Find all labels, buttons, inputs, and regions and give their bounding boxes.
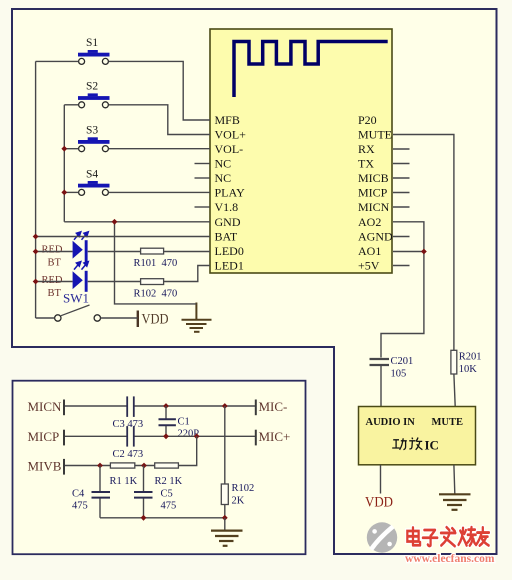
pin stub TX: [393, 163, 410, 165]
svg-text:10K: 10K: [459, 364, 478, 375]
svg-text:AO2: AO2: [358, 215, 381, 229]
svg-text:C4: C4: [72, 489, 85, 500]
junction dot C1 bottom: [163, 433, 169, 439]
amplifier IC U2 box: [359, 407, 476, 465]
resistor R1 body: [110, 463, 134, 468]
svg-text:LED1: LED1: [215, 259, 244, 273]
junction dot C5 top: [141, 463, 147, 469]
svg-text:475: 475: [72, 501, 88, 512]
ground symbol (mic box): [211, 518, 243, 546]
junction dot GND row: [112, 219, 118, 225]
svg-text:IC: IC: [425, 438, 439, 453]
wire: MIVB row: [65, 465, 110, 467]
capacitor C2: [127, 426, 134, 447]
wire: C2 to MIC+: [135, 435, 256, 437]
wire: R201 to amp MUTE input: [454, 374, 455, 406]
svg-text:BAT: BAT: [215, 230, 238, 244]
resistor R102 label 470: [134, 289, 178, 300]
svg-text:VDD: VDD: [142, 312, 169, 328]
svg-text:MICN: MICN: [358, 200, 390, 214]
junction dot AO1: [421, 249, 427, 255]
junction dot S4 bus: [61, 190, 67, 196]
junction dot C1 top: [163, 403, 169, 409]
resistor R102 body (mic box): [221, 484, 228, 505]
svg-text:RED: RED: [42, 275, 63, 286]
svg-text:C5: C5: [161, 489, 173, 500]
svg-text:MICN: MICN: [28, 399, 63, 414]
junction dot LED D1 bus: [33, 249, 39, 255]
junction dot S3 bus: [61, 146, 67, 152]
svg-text:BT: BT: [48, 288, 62, 299]
ground symbol (top section): [182, 303, 212, 332]
watermark logo circle: [367, 522, 397, 552]
wire: SW1 to VDD: [101, 317, 138, 319]
capacitor C3: [127, 396, 134, 417]
wire: GND junction down to ground: [115, 222, 197, 304]
svg-text:R102: R102: [134, 289, 157, 300]
wire: S2 to VOL+: [109, 105, 210, 135]
capacitor C4 label 475: [72, 489, 88, 512]
switch SW1 contacts: [55, 305, 101, 321]
pin stub RX: [393, 148, 410, 150]
svg-text:GND: GND: [215, 215, 241, 229]
pin stub +5V: [393, 265, 410, 267]
wire: bus to LED D2 anode: [36, 281, 73, 283]
svg-text:MICP: MICP: [28, 429, 60, 444]
svg-text:MIC+: MIC+: [259, 429, 291, 444]
svg-text:VOL+: VOL+: [215, 128, 247, 142]
power VDD symbol (top section): [138, 311, 169, 328]
svg-text:S3: S3: [86, 125, 98, 137]
pin stub MICP: [393, 192, 410, 194]
capacitor C201: [370, 359, 390, 365]
svg-text:C2 473: C2 473: [113, 449, 144, 460]
pin stub MICN: [393, 206, 410, 208]
resistor R101 label 470: [134, 258, 178, 269]
wire: LED D2 cathode to R102: [88, 281, 141, 283]
pin stub MICB: [393, 177, 410, 179]
wire: second bus vertical: [63, 105, 65, 222]
antenna meander trace: [234, 42, 388, 98]
svg-text:RED: RED: [42, 245, 63, 256]
frame: microphone sub-circuit box: [13, 381, 306, 555]
wire: C201 to amp AUDIO IN: [380, 366, 382, 407]
svg-text:TX: TX: [358, 157, 374, 171]
wire: GND row: [64, 221, 210, 223]
wire: MUTE pin to R201: [393, 135, 454, 351]
wire: AO2 pin elbow to C201: [381, 222, 424, 358]
resistor R201 label 10K: [459, 352, 482, 376]
switch S2 pushbutton: [78, 93, 110, 107]
LED D1 emission arrows: [74, 232, 88, 240]
wire: bottom rail: [100, 517, 225, 519]
svg-text:470: 470: [162, 289, 178, 300]
pin stub V1.8: [195, 206, 210, 208]
junction dot C5 bottom: [141, 515, 147, 521]
wire: R1 to R2: [135, 465, 155, 467]
junction dot LED D2 bus: [33, 279, 39, 285]
resistor R102 label 2K: [232, 483, 255, 507]
wire: S3 to VOL-: [109, 148, 210, 150]
svg-text:C1: C1: [178, 417, 190, 428]
node MICN connector bar: [63, 400, 65, 416]
svg-text:S4: S4: [86, 169, 98, 181]
svg-text:S1: S1: [86, 37, 98, 49]
svg-text:NC: NC: [215, 171, 232, 185]
svg-text:NC: NC: [215, 157, 232, 171]
wire: bus to LED D1 anode: [36, 251, 73, 253]
svg-text:RX: RX: [358, 142, 375, 156]
svg-text:R1 1K: R1 1K: [110, 476, 138, 487]
amp name 功放IC glyphs: [392, 438, 422, 450]
capacitor C1: [159, 406, 176, 436]
svg-text:MUTE: MUTE: [432, 417, 464, 428]
junction dot R102 top: [222, 403, 228, 409]
svg-text:MICB: MICB: [358, 171, 389, 185]
wire: MICN to C3: [65, 405, 127, 407]
junction dot C4 top: [97, 463, 103, 469]
capacitor C4: [92, 466, 111, 518]
wire: S2 left lead: [64, 104, 78, 106]
svg-text:LED0: LED0: [215, 244, 244, 258]
svg-text:470: 470: [162, 258, 178, 269]
wire: LED D1 cathode to R101: [88, 251, 141, 253]
ground symbol (amp): [439, 494, 471, 510]
wire: R101 to LED0 pin: [164, 251, 210, 253]
svg-text:AO1: AO1: [358, 244, 381, 258]
wire: R102 to LED1 pin elbow: [164, 266, 210, 282]
LED D2 (RED/BT): [73, 271, 88, 292]
svg-text:C201: C201: [391, 356, 414, 367]
wire: amp mute pin down: [453, 465, 456, 494]
svg-text:R102: R102: [232, 483, 255, 494]
wire: S1 left lead: [36, 60, 79, 62]
wire: S4 left lead: [64, 191, 78, 193]
wire: R102 vertical: [224, 406, 226, 484]
svg-text:+5V: +5V: [358, 259, 380, 273]
resistor R2 body: [155, 463, 179, 468]
LED D2 emission arrows: [74, 262, 88, 270]
svg-text:P20: P20: [358, 113, 377, 127]
svg-text:www.elecfans.com: www.elecfans.com: [405, 553, 495, 565]
pin stub NC2: [195, 177, 210, 179]
switch S1 pushbutton: [78, 50, 110, 64]
resistor R201 body: [451, 350, 457, 374]
junction dot R2 riser: [194, 433, 200, 439]
capacitor C5 label 475: [161, 489, 177, 512]
wire: BAT row: [36, 236, 210, 238]
svg-text:MFB: MFB: [215, 113, 240, 127]
svg-text:MIVB: MIVB: [28, 458, 62, 473]
wire: S4 to PLAY: [109, 191, 210, 193]
switch S3 pushbutton: [78, 137, 110, 151]
svg-text:R201: R201: [459, 352, 482, 363]
junction dot R102 bottom: [222, 515, 228, 521]
capacitor C5: [134, 466, 153, 518]
wire: left bus vertical: [35, 61, 37, 318]
svg-text:MUTE: MUTE: [358, 128, 392, 142]
svg-text:MICP: MICP: [358, 186, 388, 200]
svg-text:475: 475: [161, 501, 177, 512]
svg-text:R2 1K: R2 1K: [155, 476, 183, 487]
capacitor C201 label 105: [391, 356, 414, 380]
LED D1 (RED/BT): [73, 240, 88, 263]
svg-text:SW1: SW1: [63, 291, 89, 306]
node MIVB connector bar: [63, 459, 65, 475]
resistor R102 body (top section): [141, 279, 164, 285]
svg-text:BT: BT: [48, 257, 62, 268]
wire: R102 to rail: [224, 505, 226, 518]
wire: AO1 pin join: [393, 251, 424, 253]
svg-text:AUDIO IN: AUDIO IN: [366, 417, 416, 428]
svg-text:105: 105: [391, 369, 407, 380]
svg-text:R101: R101: [134, 258, 157, 269]
svg-text:PLAY: PLAY: [215, 186, 246, 200]
svg-text:S2: S2: [86, 81, 98, 93]
svg-text:VDD: VDD: [365, 495, 393, 511]
watermark text 电子发烧友: [407, 527, 489, 546]
capacitor C1 label 220P: [178, 417, 200, 440]
switch S4 pushbutton: [78, 181, 110, 195]
node MIC+ label: [256, 429, 291, 445]
pin stub AGND: [393, 236, 410, 238]
svg-text:AGND: AGND: [358, 230, 393, 244]
wire: C3 to MIC-: [135, 405, 256, 407]
node MICP connector bar: [63, 430, 65, 446]
svg-text:2K: 2K: [232, 496, 245, 507]
svg-text:MIC-: MIC-: [259, 399, 288, 414]
resistor R101 body: [141, 248, 164, 254]
wire: amp audio pin down: [380, 465, 382, 494]
wire: bus bottom to SW1: [36, 317, 55, 319]
wire: R2 riser to MICP row: [178, 436, 196, 465]
pin stub NC1: [195, 163, 210, 165]
node MIC- label: [256, 399, 288, 415]
wire: MICP to C2: [65, 435, 127, 437]
junction dot BAT bus: [33, 234, 39, 240]
IC U1 bluetooth module body: [210, 29, 392, 273]
wire: S1 to MFB: [109, 61, 210, 120]
svg-text:VOL-: VOL-: [215, 142, 244, 156]
wire: S3 left lead: [64, 148, 78, 150]
svg-text:V1.8: V1.8: [215, 200, 239, 214]
